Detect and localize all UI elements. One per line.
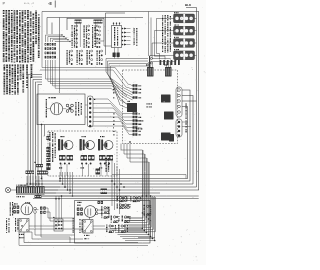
svg-text:e~s, ,-t: e~s, ,-t xyxy=(24,1,34,5)
svg-text:BLK: BLK xyxy=(185,3,192,7)
svg-text:P: P xyxy=(3,1,6,6)
